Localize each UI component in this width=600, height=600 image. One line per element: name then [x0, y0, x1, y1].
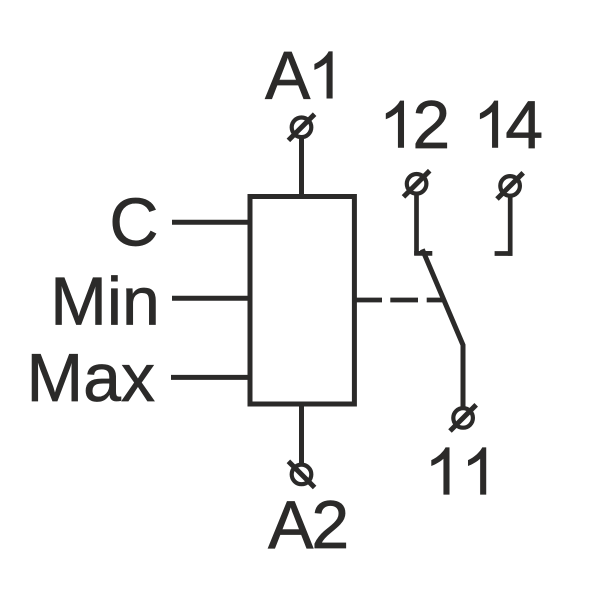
svg-text:C: C [109, 185, 158, 261]
contact tick 12 [414, 251, 432, 256]
wire A1 to box [299, 137, 304, 199]
svg-text:Min: Min [50, 263, 160, 339]
wire input Max [171, 375, 248, 380]
svg-text:Max: Max [27, 340, 155, 416]
wire terminal 12 down [414, 194, 419, 255]
svg-text:2: 2 [412, 87, 450, 163]
wire terminal 14 down [508, 196, 513, 256]
svg-text:A2: A2 [268, 487, 349, 563]
wire input Min [172, 296, 248, 301]
terminal 12 [404, 171, 430, 197]
label 11 [431, 447, 486, 494]
terminal A2 [288, 461, 314, 487]
relay coil box [250, 197, 354, 405]
label 12 [386, 87, 450, 163]
wire input C [172, 220, 248, 225]
contact tick 14 [495, 251, 513, 256]
switch lever 11-12 [422, 249, 463, 407]
svg-text:A: A [265, 38, 311, 114]
label A1 [265, 38, 333, 114]
label 14 [480, 87, 543, 163]
wire A2 to box [299, 404, 304, 464]
terminal 11 [450, 405, 476, 431]
terminal 14 [497, 173, 523, 199]
svg-text:4: 4 [505, 87, 543, 163]
dashed actuation link [354, 298, 442, 303]
terminal A1 [288, 114, 314, 140]
